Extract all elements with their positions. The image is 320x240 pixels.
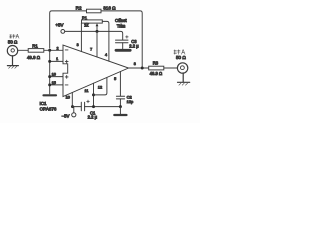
resistor R1	[28, 49, 44, 53]
ground bar C3	[116, 49, 130, 52]
node junction pin11 bus	[92, 105, 95, 108]
wire +5V rail to C3	[65, 31, 123, 39]
ground input connector	[7, 56, 18, 66]
svg-text:R2: R2	[76, 5, 82, 10]
svg-text:5: 5	[114, 77, 116, 81]
wire output run	[129, 67, 178, 69]
svg-text:12: 12	[98, 86, 102, 90]
svg-text:Offset: Offset	[115, 18, 127, 23]
node junction output feedback	[141, 67, 144, 70]
wire pin1	[50, 60, 63, 62]
plus sign C1	[87, 100, 90, 103]
node junction pin16	[48, 75, 51, 78]
wire P1 left to pin3	[80, 23, 82, 51]
svg-text:49.9 Ω: 49.9 Ω	[27, 55, 41, 60]
svg-text:Trim: Trim	[117, 23, 126, 28]
capacitor C2	[116, 96, 124, 99]
node junction pin15	[48, 83, 51, 86]
svg-text:15: 15	[52, 81, 56, 85]
svg-text:10: 10	[66, 96, 70, 100]
ground output connector	[178, 73, 190, 82]
svg-text:50 Ω: 50 Ω	[8, 39, 18, 44]
plus sign pin1	[65, 60, 68, 63]
svg-text:4: 4	[105, 53, 107, 57]
wire pin12 to pin11	[94, 78, 107, 95]
svg-text:16: 16	[52, 73, 56, 77]
svg-text:−5V: −5V	[62, 113, 70, 118]
svg-text:+5V: +5V	[56, 23, 64, 28]
wire pin16	[50, 76, 63, 78]
resistor R3	[149, 66, 164, 70]
ground bar left rail	[44, 94, 57, 96]
svg-text:1: 1	[56, 57, 58, 61]
node junction pin11 pin12	[92, 93, 95, 96]
+5V terminal	[61, 30, 65, 34]
wire feedback top run from node vertical to right corner	[50, 11, 143, 68]
svg-text:R3: R3	[153, 60, 159, 65]
-5V terminal	[72, 113, 76, 117]
svg-text:7: 7	[90, 47, 92, 51]
wire pin10 down to bus	[71, 93, 73, 107]
label output CJK	[174, 50, 185, 55]
svg-text:316 Ω: 316 Ω	[103, 5, 116, 10]
svg-text:2.2 μ: 2.2 μ	[129, 43, 139, 48]
svg-text:2: 2	[56, 46, 58, 50]
wire bus C1 to C2	[85, 106, 121, 108]
svg-text:49.9 Ω: 49.9 Ω	[150, 71, 162, 76]
svg-text:P1: P1	[82, 16, 88, 21]
wire pin15	[50, 84, 63, 86]
wire bus -5V to C1	[73, 106, 82, 108]
label input CJK	[10, 34, 19, 38]
capacitor C1	[81, 102, 84, 111]
svg-text:2.2 μ: 2.2 μ	[88, 115, 98, 120]
wire pin5 riser to C2	[119, 72, 121, 96]
svg-text:OPA676: OPA676	[40, 106, 57, 111]
capacitor C3	[116, 40, 129, 43]
wire C2 to ground	[119, 107, 121, 114]
wire wiper to pin7	[96, 31, 98, 57]
node junction pin1	[48, 60, 51, 63]
op-amp U1 triangle	[63, 45, 129, 97]
potentiometer P1	[82, 20, 103, 23]
svg-text:3: 3	[77, 43, 79, 47]
minus sign pin2	[65, 49, 68, 51]
output connector	[177, 63, 187, 73]
svg-text:11: 11	[85, 89, 89, 93]
wire input to op-amp pin2	[18, 49, 64, 51]
wire P1 right to pin4	[102, 21, 109, 61]
ground bar C2	[114, 114, 126, 116]
wiper arrow P1	[96, 23, 99, 26]
node junction wiper rail	[96, 30, 99, 33]
node junction -5V	[71, 105, 74, 108]
svg-text:8: 8	[134, 62, 136, 66]
plus sign C3	[126, 36, 129, 39]
node junction C2 bus	[119, 105, 122, 108]
node junction R1 feedback	[48, 49, 51, 52]
svg-text:R1: R1	[32, 44, 38, 49]
resistor R2	[87, 9, 102, 13]
plus sign pin16	[65, 76, 68, 79]
input connector	[7, 46, 17, 56]
svg-text:50 Ω: 50 Ω	[176, 55, 186, 60]
wire node vertical down left rail	[49, 50, 51, 94]
minus sign pin15	[65, 84, 68, 86]
svg-text:12p: 12p	[127, 99, 134, 104]
wire pin11 riser	[93, 83, 95, 106]
